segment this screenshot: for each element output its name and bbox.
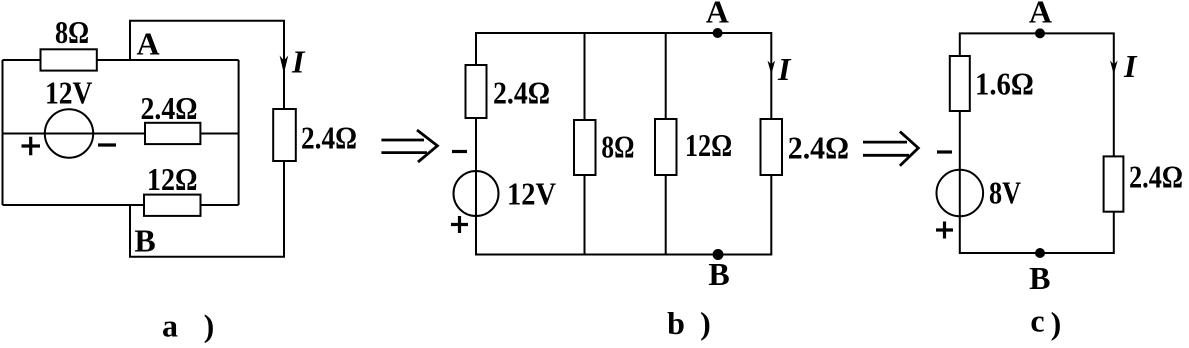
resistor 12ohm (b) <box>655 119 732 175</box>
svg-text:B: B <box>708 256 729 292</box>
wire: inner box right edge <box>238 60 240 205</box>
resistor 8ohm (b) <box>574 120 634 175</box>
resistor 8ohm (a, top branch) <box>41 14 97 71</box>
voltage source 12V (circuit a) <box>45 75 93 158</box>
wire: middle horizontal <box>3 133 239 135</box>
svg-text:): ) <box>204 308 215 344</box>
minus terminal of 12V source (b) <box>452 150 467 153</box>
wire: outer rectangle <box>960 33 1114 253</box>
svg-text:8V: 8V <box>989 175 1021 211</box>
implication arrow 2 <box>863 132 918 166</box>
svg-text:12Ω: 12Ω <box>147 161 198 197</box>
resistor 2.4ohm (b, source branch) <box>466 65 551 118</box>
resistor 1.6ohm (c) <box>950 56 1034 111</box>
svg-text:): ) <box>700 305 711 341</box>
resistor 2.4ohm (c, right load) <box>1104 156 1183 211</box>
minus terminal of 8V source (c) <box>937 150 952 153</box>
caption b) <box>667 305 711 341</box>
svg-text:): ) <box>1051 305 1062 341</box>
plus terminal of 12V source (b) <box>451 216 468 233</box>
node B dot (b) <box>713 249 724 260</box>
svg-text:12V: 12V <box>507 176 556 212</box>
resistor 2.4ohm (a, middle branch) <box>141 90 201 144</box>
minus terminal of 12V source (a) <box>98 143 116 146</box>
plus terminal of 12V source (a) <box>22 137 41 156</box>
svg-text:A: A <box>136 26 159 62</box>
svg-text:B: B <box>1029 260 1050 296</box>
svg-text:1.6Ω: 1.6Ω <box>975 66 1034 102</box>
wire: bottom horizontal <box>3 204 239 206</box>
caption a) <box>162 308 214 344</box>
svg-text:A: A <box>706 0 729 29</box>
current arrow I (b) <box>768 51 793 87</box>
current arrow I (a) <box>280 44 306 80</box>
wire: outer loop through node A to right branch and node B <box>130 21 284 257</box>
wire: branch 12ohm vertical <box>665 33 667 255</box>
svg-text:12V: 12V <box>45 75 92 111</box>
svg-text:12Ω: 12Ω <box>685 127 732 163</box>
svg-text:2.4Ω: 2.4Ω <box>493 75 550 111</box>
svg-text:A: A <box>1029 0 1052 30</box>
implication arrow 1 <box>381 130 437 162</box>
svg-text:2.4Ω: 2.4Ω <box>1129 159 1183 195</box>
plus terminal of 8V source (c) <box>936 222 953 239</box>
node B dot (c) <box>1035 248 1045 258</box>
node A dot (b) <box>713 28 723 38</box>
svg-text:8Ω: 8Ω <box>55 14 89 50</box>
voltage source 12V (circuit b) <box>454 171 557 216</box>
svg-text:2.4Ω: 2.4Ω <box>788 130 849 166</box>
resistor 12ohm (a, bottom branch) <box>144 161 201 216</box>
current arrow I (c) <box>1110 48 1138 84</box>
resistor 2.4ohm (b, right load) <box>761 119 850 175</box>
wire: inner box left edge <box>2 60 4 205</box>
svg-text:a: a <box>162 308 178 344</box>
resistor 2.4ohm (a, right load) <box>273 109 357 161</box>
wire: branch 8ohm vertical <box>584 33 586 255</box>
wire: top horizontal <box>3 59 239 61</box>
svg-text:8Ω: 8Ω <box>601 129 634 165</box>
svg-text:B: B <box>134 223 155 259</box>
svg-text:b: b <box>667 305 685 341</box>
svg-text:c: c <box>1030 303 1044 339</box>
svg-text:2.4Ω: 2.4Ω <box>301 120 357 156</box>
svg-text:2.4Ω: 2.4Ω <box>141 90 198 126</box>
node A dot (c) <box>1035 28 1045 38</box>
svg-text:I: I <box>1123 48 1138 84</box>
voltage source 8V (circuit c) <box>937 170 1022 217</box>
caption c) <box>1030 303 1061 342</box>
svg-text:I: I <box>777 51 792 87</box>
wire: outer rectangle <box>476 33 771 255</box>
svg-text:I: I <box>291 44 306 80</box>
